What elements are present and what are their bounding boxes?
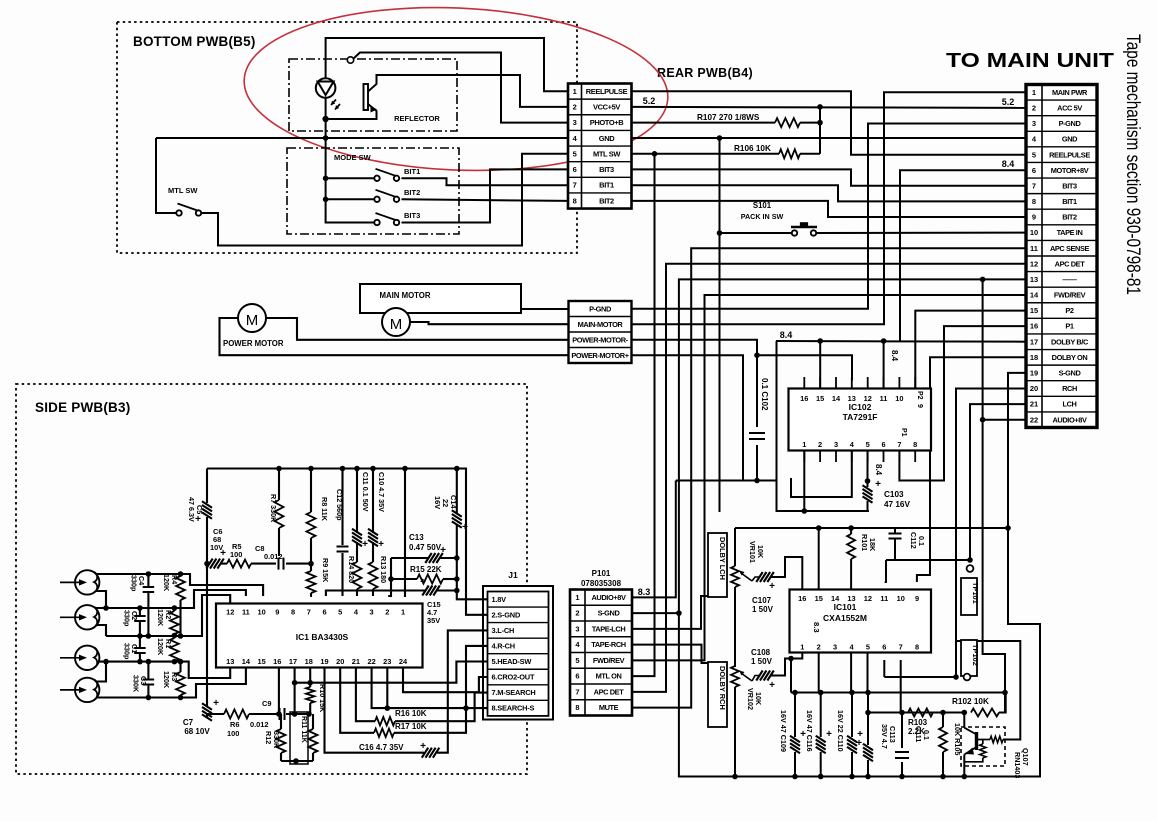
wire chain C8-end <box>286 563 311 565</box>
junction R105 top <box>940 710 946 716</box>
wire BIT3 to main pin7 <box>632 169 1027 185</box>
wire BIT2 switch to pin8 <box>402 199 569 201</box>
wire S-GND row to bus <box>632 612 679 614</box>
wire RCH to TP102 <box>956 389 1026 678</box>
junction top rail <box>370 466 376 472</box>
wire R101 bottom to pin13 <box>850 559 852 590</box>
svg-text:DOLBY ON: DOLBY ON <box>1052 353 1088 362</box>
reflector assembly outline <box>289 59 457 131</box>
svg-text:14: 14 <box>1030 291 1039 300</box>
capacitor C9 0.012 <box>279 708 281 720</box>
svg-text:4.R-CH: 4.R-CH <box>492 642 515 651</box>
svg-text:VR101: VR101 <box>748 541 757 563</box>
svg-text:5: 5 <box>573 149 577 158</box>
svg-text:6: 6 <box>1032 166 1036 175</box>
svg-text:10: 10 <box>257 608 265 617</box>
wire Q107 base feed <box>956 641 1020 740</box>
junction R103-R102 node <box>962 710 968 716</box>
tape head 4 <box>75 678 99 702</box>
svg-text:16V: 16V <box>433 496 442 509</box>
junction R15 left <box>388 576 394 582</box>
wire REELPULSE to main pin5 <box>632 91 1027 154</box>
wire mid line LM <box>106 595 230 636</box>
svg-text:BIT3: BIT3 <box>404 211 420 220</box>
wire C116 column <box>820 693 822 738</box>
wire IC101 pin6 drop <box>883 660 885 677</box>
svg-text:AUDIO+8V: AUDIO+8V <box>592 593 626 602</box>
wire R6 to C9 <box>249 713 278 715</box>
svg-text:BIT1: BIT1 <box>1062 197 1077 206</box>
junction sensor common on GND <box>323 135 329 141</box>
svg-text:MAIN-MOTOR: MAIN-MOTOR <box>578 320 624 329</box>
resistor R7 330K <box>278 469 280 501</box>
svg-text:BIT2: BIT2 <box>1062 213 1077 222</box>
junction VR chain ground <box>732 774 738 780</box>
svg-text:15: 15 <box>1030 306 1038 315</box>
svg-text:16: 16 <box>273 657 281 666</box>
svg-text:2: 2 <box>385 608 389 617</box>
wire R102 to 8.3 net <box>999 693 1006 712</box>
svg-text:TO MAIN UNIT: TO MAIN UNIT <box>946 50 1114 72</box>
junction C4 bottom <box>146 633 152 639</box>
wire POWER-MOTOR- to C102 <box>632 340 758 427</box>
capacitor C2 330p <box>139 608 141 616</box>
capacitor C111 0.1 <box>895 751 909 753</box>
junction MTL net <box>652 151 658 157</box>
switch S101 PACK IN SW <box>792 230 797 235</box>
motor MAIN MOTOR <box>360 284 521 313</box>
svg-text:+: + <box>856 738 862 749</box>
junction GND to S101 <box>717 135 723 141</box>
svg-text:TA7291F: TA7291F <box>843 412 878 422</box>
svg-text:20: 20 <box>1030 384 1038 393</box>
svg-text:2: 2 <box>817 643 821 652</box>
wire S101 to main pin10 TAPE IN <box>817 232 1027 234</box>
svg-text:+: + <box>875 479 881 490</box>
wire 8.3 rail to pin1 node <box>785 659 791 693</box>
wire rail to IC1 pin1 <box>404 469 405 597</box>
svg-text:C14: C14 <box>449 495 458 509</box>
svg-text:23: 23 <box>383 657 391 666</box>
junction R2 top <box>172 605 178 611</box>
wire DOLBY ON drop <box>917 357 1026 582</box>
wire main motor frame to P-GND <box>521 308 569 310</box>
svg-text:APC DET: APC DET <box>1055 259 1086 268</box>
capacitor C5 47 6.3V <box>206 469 208 504</box>
svg-text:14: 14 <box>242 657 251 666</box>
wire R101 column <box>850 528 852 534</box>
junction 8.4 to IC102 pin11 <box>881 338 887 344</box>
wire head4 line L4 <box>97 668 246 698</box>
junction C3 bottom <box>146 695 152 701</box>
svg-text:2.2K: 2.2K <box>908 727 925 736</box>
wire S-GND rail left drop <box>734 528 736 566</box>
wire IC1 pin23 joins row8 <box>386 668 388 709</box>
junction TP102 node <box>953 674 959 680</box>
junction top rail <box>340 466 346 472</box>
svg-text:PACK IN SW: PACK IN SW <box>741 212 784 221</box>
svg-text:18: 18 <box>1030 353 1038 362</box>
svg-text:5: 5 <box>575 656 579 665</box>
resistor R105 10K <box>939 727 947 752</box>
svg-text:J1: J1 <box>508 570 518 580</box>
junction R107 output <box>817 120 823 126</box>
capacitor C107 1 50V <box>752 577 760 581</box>
svg-text:11: 11 <box>880 394 888 403</box>
junction gnd C111 <box>899 774 905 780</box>
svg-text:VR102: VR102 <box>746 688 755 710</box>
junction top rail <box>402 466 408 472</box>
svg-text:3: 3 <box>575 625 579 634</box>
wire R16 to J1 row7 <box>395 693 488 722</box>
svg-text:R10 15K: R10 15K <box>318 684 327 713</box>
svg-text:10V: 10V <box>210 543 223 552</box>
junction C3 top <box>146 659 152 665</box>
wire C107 to IC101 pin16 <box>770 557 802 590</box>
svg-text:TAPE-LCH: TAPE-LCH <box>592 625 626 634</box>
wire C111 column <box>901 713 903 749</box>
svg-text:7: 7 <box>575 688 579 697</box>
resistor R12 330K <box>280 714 282 729</box>
wire IC1 pin19 to C16 <box>325 668 425 753</box>
svg-text:8.4: 8.4 <box>1002 159 1015 169</box>
svg-text:1: 1 <box>573 87 577 96</box>
svg-text:C5: C5 <box>195 505 204 514</box>
wire POWER-MOTOR- branch to IC102 pin13 <box>757 355 852 380</box>
wire 8.3 caps rail <box>791 692 1005 694</box>
svg-text:13: 13 <box>848 394 856 403</box>
transistor Q107 RN1403 <box>961 727 1005 766</box>
junction R4 bottom <box>178 633 184 639</box>
capacitor C108 1 50V <box>752 676 760 682</box>
svg-text:R16 10K: R16 10K <box>395 709 427 718</box>
connector B5 to B4 (8 pin) <box>568 84 632 209</box>
wire MUTE riser to APC SENSE <box>632 248 1027 707</box>
svg-text:C13: C13 <box>409 533 424 542</box>
svg-text:8: 8 <box>291 608 295 617</box>
svg-text:20: 20 <box>336 657 344 666</box>
capacitor C110 22 16V <box>847 736 857 754</box>
wire B3 top rail <box>207 469 488 615</box>
svg-text:8: 8 <box>913 440 917 449</box>
wire phototransistor collector to pin2 VCC+5V <box>377 75 569 107</box>
svg-text:+: + <box>769 680 775 691</box>
svg-text:15: 15 <box>816 394 824 403</box>
svg-text:330K: 330K <box>272 731 281 749</box>
capacitor C113 4.7 35V <box>863 744 873 762</box>
wire C110 bottom <box>851 752 853 777</box>
wire S101 branch <box>720 232 792 234</box>
wire C5 column to C7 <box>206 564 208 707</box>
resistor R8 11K <box>310 469 312 513</box>
svg-text:MTL SW: MTL SW <box>168 186 198 195</box>
svg-text:7: 7 <box>899 643 903 652</box>
switch BIT2 <box>374 197 379 202</box>
svg-text:P-GND: P-GND <box>589 304 612 313</box>
svg-text:1: 1 <box>802 440 806 449</box>
wire LED cathode / emitter junction <box>326 98 377 120</box>
svg-text:RN1403: RN1403 <box>1013 752 1022 778</box>
wire GND line to main pin4 <box>632 137 1027 139</box>
wire R106 to 5.2 net <box>800 153 820 155</box>
svg-text:2: 2 <box>1032 104 1036 113</box>
wire R103 line <box>868 712 964 714</box>
junction R2 bottom <box>172 633 178 639</box>
svg-text:MUTE: MUTE <box>599 703 619 712</box>
svg-text:10K: 10K <box>754 692 763 706</box>
svg-text:100: 100 <box>230 550 242 559</box>
junction rail R7 <box>276 466 282 472</box>
wire TP102 line to IC101 pin6 <box>884 676 956 678</box>
resistor R14 820 <box>356 542 358 562</box>
svg-text:5.HEAD-SW: 5.HEAD-SW <box>492 657 532 666</box>
wire C102 bottom <box>756 445 758 481</box>
svg-text:R107 270 1/8WS: R107 270 1/8WS <box>697 113 760 122</box>
wire main row22 stub <box>983 419 1026 421</box>
wire R12 R11 bottoms <box>281 760 313 762</box>
svg-text:VCC+5V: VCC+5V <box>593 103 620 112</box>
svg-text:10: 10 <box>897 594 905 603</box>
wire C13/R15 left to IC1 pin2 <box>388 558 391 596</box>
svg-text:17: 17 <box>289 657 297 666</box>
connector motor lines <box>569 301 632 363</box>
junction pin17 head-sw <box>292 680 298 686</box>
svg-text:12: 12 <box>864 594 872 603</box>
svg-text:6: 6 <box>881 440 885 449</box>
switch BIT1 <box>374 176 379 181</box>
svg-text:MAIN MOTOR: MAIN MOTOR <box>380 291 431 300</box>
wire 5.2 pull-up vertical <box>819 107 821 154</box>
junction POWER-MOTOR- to IC102 pin13 <box>754 352 760 358</box>
junction gnd C116 <box>818 774 824 780</box>
svg-text:1 50V: 1 50V <box>751 657 773 666</box>
svg-text:120K: 120K <box>156 638 165 656</box>
junction 5.2 pull-up <box>817 104 823 110</box>
wire C111 bottom <box>901 762 903 777</box>
wire C109 column <box>794 693 796 738</box>
svg-text:R101: R101 <box>860 534 869 551</box>
capacitor C6 68 10V <box>206 559 224 569</box>
junction bit1 common <box>323 176 329 182</box>
wire common to BIT1 switch <box>326 177 377 179</box>
svg-text:14: 14 <box>831 594 840 603</box>
svg-text:8.4: 8.4 <box>874 464 883 476</box>
svg-text:120K: 120K <box>162 671 171 689</box>
connector TO MAIN UNIT (22 pin) <box>1026 85 1097 428</box>
svg-text:BIT2: BIT2 <box>599 196 614 205</box>
svg-text:FWD/REV: FWD/REV <box>593 656 625 665</box>
svg-text:REAR PWB(B4): REAR PWB(B4) <box>657 66 753 80</box>
svg-text:C7: C7 <box>183 718 194 727</box>
IC102 pin stubs <box>803 377 805 389</box>
switch MTL SW <box>176 210 181 215</box>
wire chain R5-C8 <box>251 563 276 565</box>
svg-text:11: 11 <box>880 594 888 603</box>
svg-text:+: + <box>420 741 426 752</box>
wire LED anode to connector pin1 REELPULSE <box>326 38 568 91</box>
svg-text:C108: C108 <box>751 648 771 657</box>
svg-text:P1: P1 <box>1065 322 1074 331</box>
svg-text:IC101: IC101 <box>834 602 857 612</box>
svg-text:330p: 330p <box>123 610 132 627</box>
junction C13 right <box>454 555 460 561</box>
svg-text:C10 4.7 35V: C10 4.7 35V <box>377 472 386 512</box>
svg-text:24: 24 <box>399 657 408 666</box>
resistor R11 11K <box>290 712 308 764</box>
svg-text:11: 11 <box>242 608 250 617</box>
svg-text:2: 2 <box>573 103 577 112</box>
junction gnd R105 <box>940 774 946 780</box>
resistor R106 10K <box>779 149 800 158</box>
junction C109 rail <box>792 690 798 696</box>
svg-text:6: 6 <box>573 165 577 174</box>
wire row13 branch down <box>982 279 984 419</box>
svg-text:5: 5 <box>866 440 870 449</box>
svg-text:8: 8 <box>573 196 577 205</box>
wire head1 link <box>96 591 107 608</box>
svg-text:1: 1 <box>575 593 579 602</box>
wire IC1 pin24 to J1 row6 <box>403 668 488 693</box>
junction gnd C109 <box>792 774 798 780</box>
svg-text:P-GND: P-GND <box>1059 119 1082 128</box>
wire VR chain bottom <box>734 687 736 777</box>
svg-text:GND: GND <box>599 134 615 143</box>
wire TP101 line to IC101 <box>886 559 970 561</box>
svg-text:MAIN PWR: MAIN PWR <box>1052 88 1088 97</box>
svg-text:C11 0.1 50V: C11 0.1 50V <box>361 472 370 512</box>
svg-text:330p: 330p <box>130 575 139 592</box>
svg-text:TAPE-RCH: TAPE-RCH <box>591 640 625 649</box>
svg-text:R12: R12 <box>264 731 273 744</box>
wire MOTOR+8V down to 8.4 rail <box>900 170 1026 341</box>
svg-text:TP102: TP102 <box>971 644 980 666</box>
svg-text:6: 6 <box>882 643 886 652</box>
svg-text:8.SEARCH-S: 8.SEARCH-S <box>492 704 535 713</box>
resistor R102 10K <box>971 709 999 717</box>
LED of photo reflector <box>316 78 336 98</box>
wire C112 bottom <box>894 539 896 561</box>
switch BIT3 <box>374 220 379 225</box>
svg-text:11: 11 <box>1030 244 1038 253</box>
block DOLBY LCH <box>708 533 727 597</box>
junction link L3 <box>103 659 109 665</box>
junction R17 riser row8 <box>463 705 469 711</box>
svg-text:TP101: TP101 <box>971 582 980 604</box>
wire 8.4 to IC102 pin15 <box>819 341 821 389</box>
junction 8.3 rail right <box>1002 690 1008 696</box>
svg-text:S-GND: S-GND <box>1059 369 1082 378</box>
svg-text:AUDIO+8V: AUDIO+8V <box>1053 415 1087 424</box>
svg-text:R15 22K: R15 22K <box>410 565 442 574</box>
wire GND bus down <box>719 138 721 512</box>
capacitor C103 47 16V <box>863 485 873 503</box>
svg-text:9: 9 <box>275 608 279 617</box>
resistor R17 10K <box>374 729 394 737</box>
wire BIT1 switch to pin7 <box>402 178 569 185</box>
svg-text:——: —— <box>1063 275 1078 284</box>
svg-text:R7 330K: R7 330K <box>269 494 278 523</box>
junction C110 rail <box>849 690 855 696</box>
svg-text:6: 6 <box>322 608 326 617</box>
wire P2 from main pin15 <box>915 311 1026 389</box>
wire IC102 pin4 stub loop <box>791 451 852 498</box>
wire C7 to R6 <box>207 714 224 717</box>
capacitor C16 4.7 35V <box>422 748 440 758</box>
bottom PWB(B5) board outline <box>117 22 577 253</box>
IC IC101 CXA1552M body <box>790 590 932 653</box>
red highlight ellipse <box>241 0 672 179</box>
wire IC101 pin2 / C116 column <box>818 653 820 693</box>
svg-text:3: 3 <box>834 440 838 449</box>
svg-text:7: 7 <box>307 608 311 617</box>
junction C116 rail <box>818 690 824 696</box>
wire FWD/REV riser <box>632 295 1027 660</box>
svg-text:7: 7 <box>897 440 901 449</box>
reflector case terminal <box>347 57 353 63</box>
junction C4 top <box>146 571 152 577</box>
junction LED cathode-emitter <box>322 116 328 122</box>
wire IC1 pin21 to R16 <box>356 668 375 722</box>
svg-text:5: 5 <box>338 608 342 617</box>
svg-text:+: + <box>213 698 219 709</box>
capacitor C7 68 10V <box>202 703 212 721</box>
svg-text:P2: P2 <box>1065 306 1074 315</box>
wire common to BIT2 switch <box>326 198 377 200</box>
svg-text:BIT3: BIT3 <box>1062 181 1077 190</box>
wire IC1 pin20 to R17 <box>340 668 374 733</box>
wire MTL SW row to R106 <box>632 153 780 155</box>
tape head 1 <box>75 570 99 594</box>
wire Q107 emitter to ground <box>963 755 965 777</box>
wire MAIN PWR down to MAIN-MOTOR row <box>632 92 1027 324</box>
svg-text:BIT1: BIT1 <box>404 167 420 176</box>
junction C2 top <box>137 605 143 611</box>
svg-text:16: 16 <box>798 594 806 603</box>
svg-text:3: 3 <box>573 118 577 127</box>
junction pin15 rail <box>816 525 822 531</box>
svg-text:MTL ON: MTL ON <box>596 672 622 681</box>
junction C113 rail <box>865 690 871 696</box>
svg-text:15: 15 <box>815 594 823 603</box>
wire 8.4 rail left drop <box>777 341 870 511</box>
junction chain pin17 <box>292 711 298 717</box>
svg-text:2: 2 <box>818 440 822 449</box>
wire 8.4 to IC102 pin11 <box>883 341 885 389</box>
capacitor C11 0.1 50V <box>356 469 358 534</box>
wire IC101 pin5 / C113 column <box>867 653 869 693</box>
svg-text:+: + <box>378 539 384 550</box>
wire C110 column <box>851 693 853 738</box>
wire AUDIO+8V riser <box>632 481 676 598</box>
wire head3 line L3 <box>99 662 230 678</box>
svg-text:1: 1 <box>800 643 804 652</box>
svg-text:MODE SW: MODE SW <box>334 153 372 162</box>
svg-text:330K: 330K <box>132 675 141 693</box>
svg-text:APC SENSE: APC SENSE <box>1050 244 1090 253</box>
svg-text:C12 560p: C12 560p <box>335 489 344 521</box>
svg-text:9: 9 <box>916 404 923 408</box>
junction C1 bottom <box>137 659 143 665</box>
svg-text:POWER MOTOR: POWER MOTOR <box>223 339 284 348</box>
junction bit2 common <box>323 197 329 203</box>
junction R4 top <box>178 571 184 577</box>
junction chain R10 <box>306 711 312 717</box>
svg-text:R8 11K: R8 11K <box>320 497 329 522</box>
wire R105 bottom <box>942 752 944 777</box>
svg-text:IC1 BA3430S: IC1 BA3430S <box>296 632 349 642</box>
wire C109 bottom <box>794 752 796 777</box>
svg-text:7.M-SEARCH: 7.M-SEARCH <box>492 688 536 697</box>
